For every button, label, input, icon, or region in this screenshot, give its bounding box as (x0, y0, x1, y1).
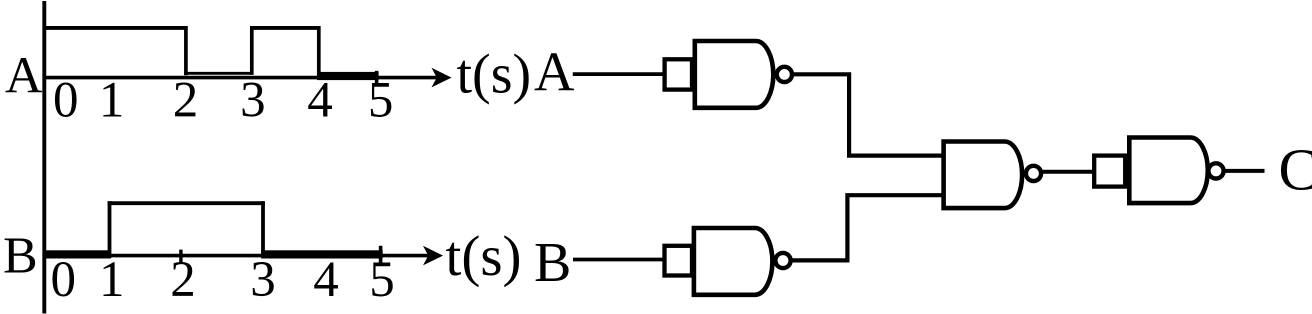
tick 5 on A axis (375, 71, 379, 86)
shared vertical axis (42, 1, 46, 314)
wire A high 0-2 (43, 26, 188, 30)
svg-text:0: 0 (51, 252, 77, 308)
tick 5 on B axis (379, 246, 383, 266)
nand gate U3 body (944, 142, 1022, 209)
bubble U3 (1026, 166, 1041, 181)
nand gate U1 body (695, 41, 774, 108)
svg-text:1: 1 (99, 73, 125, 129)
node A time axis (43, 76, 444, 80)
wire U3 out to U4 (1042, 170, 1096, 174)
svg-text:t(s): t(s) (446, 225, 522, 288)
svg-text:2: 2 (173, 73, 199, 129)
svg-text:C: C (1279, 137, 1312, 203)
svg-text:4: 4 (313, 252, 339, 308)
node B time axis (43, 254, 435, 258)
wire A fall at 2 (184, 26, 188, 75)
wire A rise at 3 (250, 26, 254, 75)
svg-text:5: 5 (369, 252, 395, 308)
svg-text:2: 2 (170, 252, 196, 308)
input square U2 (665, 246, 693, 276)
svg-text:B: B (3, 228, 38, 285)
svg-text:A: A (5, 47, 43, 104)
wire U1 out to U3 top input (793, 74, 945, 155)
bubble U2 (775, 253, 790, 268)
wire B low 3-5 thick (261, 250, 383, 258)
wire U2 out to U3 bottom input (791, 195, 944, 260)
svg-text:0: 0 (53, 73, 79, 129)
wire A low 2-3 (184, 72, 253, 75)
wire B low 0-1 thick (43, 250, 112, 258)
nand gate U4 body (1129, 138, 1208, 204)
svg-text:3: 3 (240, 73, 266, 129)
wire B to U2 (573, 258, 666, 262)
wire B fall at 3 (261, 201, 265, 258)
wire A to U1 (573, 72, 666, 76)
svg-text:3: 3 (250, 252, 276, 308)
svg-text:4: 4 (307, 73, 333, 129)
wire A low 4-5 thick (317, 72, 379, 80)
input square U4 (1094, 156, 1125, 187)
bubble U1 (777, 67, 792, 82)
bubble U4 (1208, 163, 1223, 178)
svg-text:B: B (534, 232, 571, 294)
svg-text:t(s): t(s) (457, 44, 532, 106)
svg-text:5: 5 (368, 73, 394, 129)
nand gate U2 body (694, 228, 772, 295)
wire B rise at 1 (108, 201, 112, 258)
svg-text:A: A (534, 42, 575, 104)
wire B high 1-3 (108, 201, 265, 205)
wire A high 3-4 (250, 26, 320, 30)
arrowhead B axis (423, 246, 443, 266)
wire A fall at 4 (317, 26, 321, 79)
svg-text:1: 1 (99, 252, 125, 308)
tick 2 on B axis (179, 250, 182, 263)
wire U4 out to C (1224, 169, 1264, 173)
arrowhead A axis (432, 68, 452, 88)
input square U1 (665, 59, 692, 89)
